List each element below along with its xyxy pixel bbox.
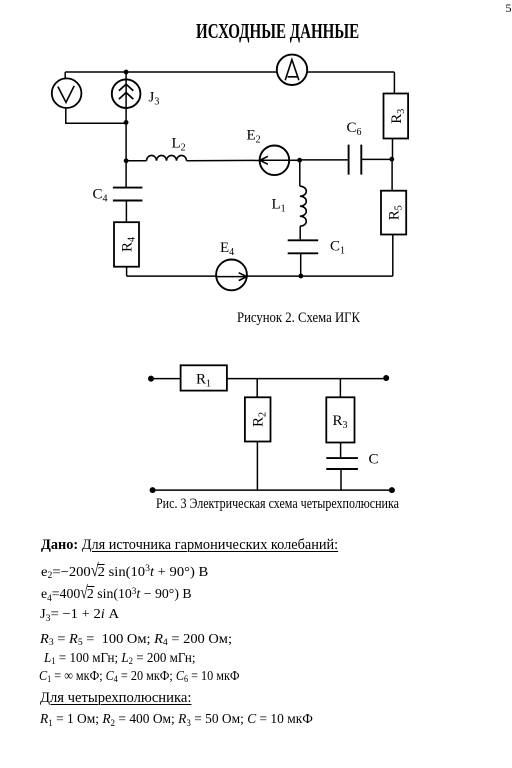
node L2/C4 junction — [124, 158, 129, 163]
node E2 output — [297, 158, 302, 163]
node voltmeter junction — [124, 120, 129, 125]
wire C bottom stub — [340, 469, 342, 490]
wire C4 to R4 — [125, 201, 127, 223]
wire L2 to E2 — [187, 159, 300, 162]
svg-text:C4: C4 — [93, 187, 108, 205]
wire L2 left stub — [126, 160, 146, 162]
caption figure 2 — [237, 310, 360, 327]
svg-text:C6: C6 — [347, 120, 362, 138]
capacitor C6 — [349, 145, 362, 175]
terminal input top — [148, 376, 154, 382]
node top junction — [124, 70, 129, 75]
wire R5 top stub — [391, 159, 393, 191]
source E2 — [260, 146, 290, 176]
svg-text:C: C — [369, 452, 379, 468]
wire voltmeter bottom — [66, 109, 126, 123]
wire top right — [227, 378, 386, 380]
caption figure 3 — [156, 496, 399, 513]
svg-text:E2: E2 — [247, 128, 261, 146]
source E4 — [216, 260, 247, 291]
wire R5 bottom stub — [392, 235, 394, 277]
page number — [506, 1, 512, 16]
node bottom junction — [299, 274, 304, 279]
resistor R3 — [326, 397, 354, 442]
wire R3 top stub — [393, 72, 395, 94]
wire bottom — [127, 275, 393, 277]
wire top left — [151, 378, 181, 380]
wire R4 bottom — [126, 267, 128, 276]
capacitor C — [326, 458, 358, 469]
resistor R3 — [384, 94, 409, 139]
voltmeter V — [52, 78, 82, 108]
inductor L1 — [300, 186, 306, 226]
wire C6 to right node — [361, 158, 392, 160]
inductor L2 — [147, 155, 187, 160]
given data text — [41, 537, 338, 554]
wire C4 top stub — [125, 161, 127, 188]
wire R2 top stub — [256, 379, 258, 398]
wire R3 to node — [392, 139, 394, 160]
resistor R5 — [381, 191, 406, 235]
wire R2 bottom stub — [256, 442, 258, 491]
wire node to C6 — [300, 159, 349, 161]
wire L1 top stub — [299, 160, 301, 186]
ammeter A — [277, 55, 307, 85]
title — [196, 19, 359, 44]
current source J3 — [112, 72, 141, 161]
capacitor C4 — [113, 188, 142, 201]
terminal output top — [383, 375, 389, 381]
wire voltmeter top — [64, 72, 66, 78]
wire R3 to C — [340, 443, 342, 459]
svg-text:L2: L2 — [172, 136, 186, 154]
wire top — [65, 71, 394, 73]
svg-text:E4: E4 — [220, 240, 234, 258]
resistor R2 — [245, 397, 271, 441]
terminal input bottom — [150, 487, 156, 493]
wire bottom — [153, 489, 392, 491]
svg-text:C1: C1 — [330, 239, 345, 257]
resistor R1 — [181, 365, 227, 390]
node right junction — [389, 157, 394, 162]
svg-text:L1: L1 — [272, 197, 286, 215]
terminal output bottom — [389, 487, 395, 493]
capacitor C1 — [288, 240, 319, 253]
svg-text:J3: J3 — [149, 90, 160, 108]
resistor R4 — [114, 222, 139, 267]
wire C1 to bottom — [300, 253, 302, 276]
wire L1 to C1 — [299, 226, 301, 240]
wire R3 top stub — [339, 379, 341, 398]
